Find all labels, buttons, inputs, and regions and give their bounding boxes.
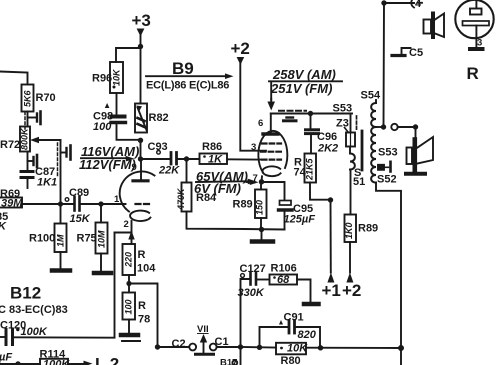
junction dot grid-R100 <box>58 201 63 206</box>
wire R96 to C98 <box>116 93 118 114</box>
anode top wire <box>271 113 352 115</box>
wire Z3 to S51 <box>349 147 351 154</box>
svg-text:C93: C93 <box>148 141 168 153</box>
resistor R100 <box>60 204 62 224</box>
svg-text:R84: R84 <box>196 192 217 204</box>
svg-text:800K: 800K <box>20 127 30 150</box>
ground under R75 <box>94 271 111 276</box>
svg-text:220: 220 <box>124 252 134 268</box>
cathode ground node <box>259 227 264 232</box>
svg-text:100: 100 <box>93 121 112 133</box>
svg-text:R75: R75 <box>77 233 97 245</box>
svg-text:R82: R82 <box>149 112 169 124</box>
svg-text:1K: 1K <box>208 154 223 166</box>
svg-text:+2: +2 <box>231 39 250 58</box>
svg-text:VII: VII <box>197 324 209 335</box>
svg-text:6: 6 <box>258 118 263 129</box>
pentode cathode loop <box>262 166 280 176</box>
svg-text:2: 2 <box>124 219 129 230</box>
S52 tap capacitor <box>378 165 384 170</box>
wire node to C93 <box>141 158 170 160</box>
svg-text:1M: 1M <box>56 234 66 247</box>
wire wiper down to grid node <box>60 140 62 204</box>
secondary bottom wire <box>376 183 401 349</box>
svg-text:R80: R80 <box>281 355 301 365</box>
junction dot anode/C96 <box>308 111 313 116</box>
svg-text:100K: 100K <box>43 359 70 365</box>
resistor R74 <box>305 154 317 183</box>
pentode anode <box>263 132 278 135</box>
wire to switch bus <box>129 284 158 348</box>
116V callout arrow <box>81 157 128 159</box>
pentode grid dashes g3 <box>262 142 281 144</box>
svg-text:Z3: Z3 <box>336 118 349 130</box>
svg-text:330K: 330K <box>238 287 265 299</box>
svg-text:B9: B9 <box>172 59 194 78</box>
connector C4 <box>411 0 422 8</box>
junction dot C89-R75 <box>98 201 103 206</box>
ground cathode <box>252 239 273 244</box>
svg-text:150: 150 <box>255 200 265 215</box>
svg-text:+1: +1 <box>322 281 341 300</box>
svg-text:C89: C89 <box>69 187 89 199</box>
svg-text:S53: S53 <box>333 103 353 115</box>
Z3 pointer <box>345 128 349 133</box>
capacitor C87 <box>21 170 33 173</box>
svg-text:+2: +2 <box>342 281 361 300</box>
resistor R96 <box>110 62 123 93</box>
wire anode to Z3 <box>350 114 352 133</box>
svg-text:C96: C96 <box>317 131 337 143</box>
svg-text:3: 3 <box>477 38 482 49</box>
svg-text:L 2: L 2 <box>95 355 119 365</box>
svg-text:R100: R100 <box>29 233 55 245</box>
resistor R80 <box>276 343 306 355</box>
wire C98 to node <box>117 124 141 140</box>
svg-text:251V (FM): 251V (FM) <box>270 81 332 96</box>
svg-text:112V(FM): 112V(FM) <box>79 157 136 172</box>
wire to R96 <box>116 48 141 62</box>
svg-text:C2: C2 <box>172 338 186 350</box>
triode anode bar pin9 <box>133 179 148 182</box>
resistor R106 <box>270 275 298 285</box>
svg-text:R: R <box>138 300 146 312</box>
wire R70 to R72 <box>27 112 29 127</box>
resistor R82 (variable) <box>135 104 147 133</box>
svg-text:C5: C5 <box>409 47 423 59</box>
dashed gang line right <box>57 143 59 178</box>
triode grid dashes <box>136 203 150 205</box>
svg-text:470K: 470K <box>176 187 186 211</box>
C127 line crosses bus <box>240 347 242 365</box>
junction dot R74/+1 <box>328 197 333 202</box>
svg-text:10K: 10K <box>287 343 308 355</box>
wire C93 to R86 <box>177 158 200 160</box>
junction dot R104/R78 <box>126 281 131 286</box>
cathode lead + branch <box>131 221 133 244</box>
pentode grid dashes g1 <box>262 159 281 161</box>
secondary tap wire <box>376 126 384 128</box>
potentiometer R72 <box>20 127 30 152</box>
svg-text:10M: 10M <box>97 230 107 248</box>
capacitor C91 <box>288 321 291 334</box>
svg-text:R89: R89 <box>233 199 253 211</box>
pentode envelope <box>258 131 287 173</box>
cathode node dot <box>259 179 264 184</box>
wire C89 to tube grid <box>80 203 126 205</box>
junction dot anode node <box>138 156 143 161</box>
cathode arrow from left <box>247 181 251 183</box>
svg-text:3: 3 <box>251 142 256 153</box>
resistor R84 <box>186 159 188 183</box>
B17 connector <box>232 360 237 365</box>
svg-text:5K6: 5K6 <box>23 89 33 107</box>
capacitor C98 <box>112 115 125 119</box>
svg-text:C91: C91 <box>284 312 304 324</box>
svg-text:258V (AM): 258V (AM) <box>272 67 336 82</box>
pentode grid dashes g2 <box>261 151 281 153</box>
wire +3 down to R82 <box>140 47 142 104</box>
svg-text:R72: R72 <box>0 139 20 151</box>
svg-text:S53: S53 <box>378 147 398 159</box>
svg-text:C127: C127 <box>240 263 266 275</box>
capacitor C95 <box>280 201 292 206</box>
svg-text:100: 100 <box>124 299 134 314</box>
svg-text:1: 1 <box>114 194 120 205</box>
R114 bottom edge <box>15 361 20 365</box>
svg-text:B17: B17 <box>220 358 237 365</box>
fuse Z3 <box>346 133 355 147</box>
svg-text:R106: R106 <box>271 263 297 275</box>
HT line up to C4 <box>384 3 415 127</box>
+3 arrow <box>140 35 142 46</box>
resistor R86 <box>200 154 228 165</box>
svg-text:µF: µF <box>0 352 12 364</box>
svg-text:15K: 15K <box>70 213 91 225</box>
wire R69 to C89 <box>22 203 74 205</box>
resistor R89 (150) <box>260 182 262 190</box>
svg-text:R: R <box>138 249 146 261</box>
coil S53 <box>371 127 376 183</box>
svg-text:+3: +3 <box>132 11 151 30</box>
svg-text:C1: C1 <box>215 336 229 348</box>
svg-text:R89: R89 <box>358 223 378 235</box>
svg-text:1K0: 1K0 <box>344 222 354 239</box>
capacitor tap on wiper line <box>61 152 66 154</box>
svg-text:21K5: 21K5 <box>305 157 315 181</box>
svg-text:R86: R86 <box>202 141 222 153</box>
triode cathode curve <box>130 211 150 221</box>
capacitor C93 <box>170 153 173 165</box>
svg-text:EC(L)86 E(C)L86: EC(L)86 E(C)L86 <box>146 80 229 92</box>
ground under R78 <box>121 333 138 338</box>
capacitor tap below R72 <box>28 160 33 162</box>
resistor R89 (1K0) <box>345 215 357 243</box>
coil S51 <box>350 154 355 170</box>
junction dot +3 <box>138 44 143 49</box>
svg-text:B12: B12 <box>10 284 41 303</box>
junction dot R82 bottom <box>138 138 143 143</box>
wire top-left feed <box>0 72 28 85</box>
svg-text:22K: 22K <box>158 165 180 177</box>
capacitor tap below R70 <box>28 117 36 119</box>
transformer core <box>361 131 364 170</box>
wire R72 to C87 <box>27 152 29 171</box>
65V callout arrow <box>196 180 249 183</box>
resistor R78 <box>123 293 136 320</box>
svg-text:R70: R70 <box>36 92 56 104</box>
connector circle <box>391 124 397 130</box>
wire to +1 <box>330 200 332 273</box>
wire cathode to C95 <box>262 182 285 200</box>
svg-text:78: 78 <box>138 314 150 326</box>
svg-text:125µF: 125µF <box>284 214 316 226</box>
resistor R69 <box>0 198 22 208</box>
svg-text:R96: R96 <box>92 73 112 85</box>
svg-text:820: 820 <box>298 329 317 341</box>
svg-text:104: 104 <box>137 263 156 275</box>
svg-text:2K2: 2K2 <box>317 143 338 155</box>
svg-text:C 83-EC(C)83: C 83-EC(C)83 <box>0 304 68 316</box>
internal shield bars <box>287 116 294 118</box>
capacitor C96 <box>310 114 312 129</box>
svg-text:4: 4 <box>415 0 422 10</box>
wiper arrow R72 <box>35 139 61 141</box>
svg-text:S54: S54 <box>361 90 381 102</box>
wire R86 to pentode grid <box>227 158 262 160</box>
svg-text:10K: 10K <box>112 68 122 86</box>
ground under R106 <box>304 302 319 307</box>
svg-text:100K: 100K <box>21 326 48 338</box>
svg-text:51: 51 <box>353 176 365 188</box>
resistor R75 <box>100 204 102 223</box>
svg-text:68: 68 <box>277 274 290 286</box>
svg-text:1K1: 1K1 <box>37 177 57 189</box>
svg-text:R: R <box>467 64 479 83</box>
triode envelope <box>120 171 155 211</box>
ground under R100 <box>52 268 70 273</box>
junction dot R84 top <box>184 156 189 161</box>
svg-text:7: 7 <box>253 173 258 184</box>
dashed gang line left <box>24 112 26 129</box>
coil S54 <box>375 100 377 103</box>
svg-text:K: K <box>0 221 7 233</box>
wire S51 to R89b <box>350 170 352 215</box>
resistor R104 <box>123 244 136 275</box>
connector C5 <box>402 48 411 54</box>
internal g2 dashed <box>279 110 306 112</box>
resistor R70 <box>22 85 34 112</box>
capacitor C127 <box>249 273 252 285</box>
capacitor C89 <box>73 197 76 211</box>
svg-text:39M: 39M <box>1 198 23 210</box>
svg-text:S52: S52 <box>377 174 397 186</box>
